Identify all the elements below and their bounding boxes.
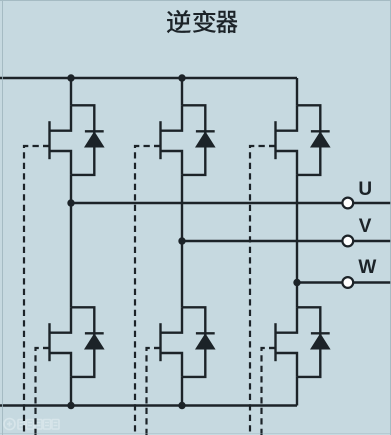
terminal circle U — [342, 198, 353, 209]
diode D4 (anti-parallel freewheeling) — [182, 307, 215, 377]
wire: emitter lead Q5 — [296, 175, 298, 283]
diode D3 (anti-parallel freewheeling) — [182, 105, 215, 175]
terminal circle V — [342, 236, 353, 247]
transistor Q6 (IGBT) — [269, 307, 297, 377]
watermark (faint site logo, bottom-left) — [4, 419, 59, 430]
wire: negative DC bus (bottom rail) — [0, 404, 297, 406]
title: 变 — [193, 10, 216, 32]
diode D2 (anti-parallel freewheeling) — [71, 307, 104, 377]
wire: collector lead Q3 — [181, 78, 183, 105]
wire: emitter lead Q6 — [296, 377, 298, 406]
wire: collector lead Q4 — [181, 241, 183, 307]
transistor Q1 (IGBT) — [43, 105, 71, 175]
wire: gate drive line Q2 (dashed) — [36, 348, 44, 435]
title: 器 — [216, 11, 237, 33]
title: 逆 (of 逆变器 inverter) — [167, 10, 191, 33]
wire: emitter lead Q4 — [181, 377, 183, 406]
svg-text:W: W — [358, 257, 376, 278]
node: U output junction — [67, 199, 74, 206]
transistor Q4 (IGBT) — [154, 307, 182, 377]
wire: gate drive line Q5 (dashed) — [250, 146, 269, 435]
wire: emitter lead Q1 — [70, 175, 72, 203]
wire: emitter lead Q2 — [70, 377, 72, 406]
wire: collector lead Q1 — [70, 78, 72, 105]
node: W output junction — [293, 279, 300, 286]
node: V output junction — [178, 237, 185, 244]
transistor Q5 (IGBT) — [269, 105, 297, 175]
wire: emitter lead Q3 — [181, 175, 183, 241]
wire: gate drive line Q1 (dashed) — [24, 146, 43, 435]
diode D1 (anti-parallel freewheeling) — [71, 105, 104, 175]
wire: phase output U rail — [71, 202, 391, 204]
terminal circle W — [342, 277, 353, 288]
wire: collector lead Q6 — [296, 283, 298, 308]
wire: phase output V rail — [182, 240, 391, 242]
diode D5 (anti-parallel freewheeling) — [297, 105, 330, 175]
node: top rail / phase-V leg junction — [178, 74, 185, 81]
wire: gate drive line Q3 (dashed) — [135, 146, 154, 435]
wire: phase output W rail — [297, 281, 391, 283]
wire: collector lead Q2 — [70, 203, 72, 307]
diode D6 (anti-parallel freewheeling) — [297, 307, 330, 377]
wire: gate drive line Q4 (dashed) — [147, 348, 155, 435]
svg-text:V: V — [359, 216, 372, 237]
wire: collector lead Q5 — [296, 78, 298, 105]
node: top rail / phase-U leg junction — [67, 74, 74, 81]
wire: gate drive line Q6 (dashed) — [262, 348, 270, 435]
wire: positive DC bus (top rail) — [0, 77, 297, 79]
transistor Q3 (IGBT) — [154, 105, 182, 175]
node: bottom rail / phase-U leg junction — [67, 402, 74, 409]
svg-text:U: U — [358, 179, 372, 200]
node: bottom rail / phase-V leg junction — [178, 402, 185, 409]
transistor Q2 (IGBT) — [43, 307, 71, 377]
